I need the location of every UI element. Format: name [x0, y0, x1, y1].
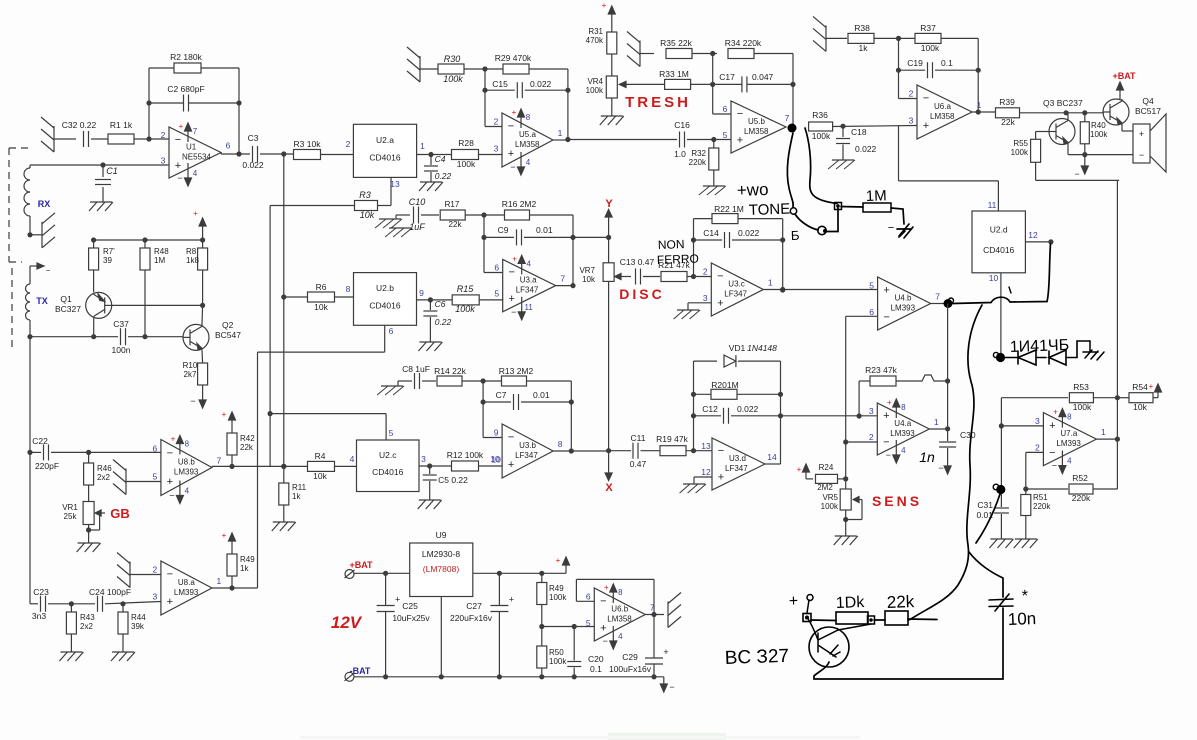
svg-text:8: 8 [346, 284, 351, 294]
svg-text:SENS: SENS [872, 493, 922, 509]
ground under R11 [272, 522, 296, 531]
bus vertical x257 [257, 352, 259, 588]
wire U9 gnd pin [440, 597, 442, 677]
op-amp U8.b LM393 [153, 435, 222, 504]
svg-text:TX: TX [36, 296, 48, 306]
svg-text:CD4016: CD4016 [369, 300, 400, 310]
svg-text:R39: R39 [999, 97, 1015, 107]
svg-text:220pF: 220pF [35, 461, 59, 471]
svg-text:R40: R40 [1091, 121, 1106, 130]
svg-text:R30: R30 [444, 54, 461, 64]
svg-text:X: X [605, 482, 613, 494]
svg-text:3: 3 [1035, 416, 1040, 426]
svg-text:7: 7 [217, 456, 222, 466]
wire U3.d pin12 gnd [694, 477, 712, 484]
svg-text:8: 8 [526, 113, 531, 122]
wire U9 out rail [473, 571, 566, 576]
svg-text:3: 3 [161, 155, 166, 165]
svg-text:100k: 100k [455, 304, 475, 314]
label 1n handwritten [919, 449, 935, 465]
resistor R8 1k8 [186, 240, 208, 305]
svg-text:11: 11 [988, 200, 997, 210]
wire U6.a pin3 to U2.d [899, 126, 999, 212]
Y axis arrow [605, 210, 612, 231]
svg-text:1: 1 [1101, 427, 1106, 437]
resistor R24 2M2 [806, 463, 846, 492]
svg-text:100k: 100k [1073, 402, 1092, 412]
svg-text:U6.a: U6.a [934, 102, 951, 111]
svg-text:+: + [1149, 382, 1154, 391]
wire C37 row [27, 334, 183, 339]
wire C13-R21 [643, 276, 660, 278]
svg-text:U3.b: U3.b [519, 441, 536, 450]
capacitor C6 0.22 [423, 299, 451, 342]
svg-text:1k: 1k [859, 43, 869, 53]
svg-text:+: + [602, 1, 607, 10]
resistor R15 100k [452, 284, 479, 314]
svg-text:10k: 10k [582, 275, 596, 284]
potentiometer VR7 10k [579, 263, 614, 284]
capacitor C30 1n [939, 429, 976, 447]
wire C31 vertical [1000, 426, 1002, 507]
svg-text:+: + [508, 459, 514, 471]
wire C23-C24 [48, 601, 95, 606]
ground U8.b pin5 [113, 460, 161, 495]
svg-text:7: 7 [785, 113, 790, 123]
VR7 wiper [615, 274, 631, 280]
svg-text:LM393: LM393 [174, 468, 199, 477]
svg-text:LF347: LF347 [725, 464, 748, 473]
svg-text:10k: 10k [360, 210, 375, 220]
svg-text:7: 7 [560, 274, 565, 284]
svg-text:C9: C9 [498, 225, 509, 235]
svg-text:12: 12 [1028, 230, 1038, 240]
svg-text:3: 3 [869, 406, 874, 416]
arrow +BAT [1117, 82, 1124, 99]
svg-text:12V: 12V [331, 613, 363, 632]
capacitor C7 0.01 [483, 390, 571, 410]
wire Q2 emitter to R10 [201, 350, 204, 363]
svg-text:220k: 220k [689, 158, 707, 167]
svg-text:R19 47k: R19 47k [656, 434, 688, 444]
wire R37 right [941, 37, 978, 39]
svg-text:R3 10k: R3 10k [294, 139, 322, 149]
wire R1 to U1 pin2 [134, 136, 169, 141]
svg-text:CD4016: CD4016 [369, 152, 400, 162]
svg-text:4: 4 [1067, 457, 1072, 466]
svg-text:+BAT: +BAT [1112, 71, 1136, 81]
svg-text:R43: R43 [80, 613, 95, 622]
hand wavy B blob to 10n [969, 494, 1003, 597]
svg-text:C24 100pF: C24 100pF [89, 587, 131, 597]
resistor R14 22k [422, 366, 467, 386]
wire C9 row to Y axis [573, 236, 609, 238]
label +BAT [1112, 71, 1136, 81]
ground R30 [407, 47, 438, 82]
op-amp U3.b LF347 [491, 424, 562, 478]
svg-text:VD1: VD1 [729, 343, 746, 353]
wire U8.b out row [212, 464, 357, 469]
transistor Q4 BC517 [1103, 96, 1161, 125]
svg-text:+: + [1139, 129, 1144, 139]
capacitor C10 1uF [375, 197, 425, 232]
resistor R33 1M [659, 69, 690, 89]
wire R53 right [1093, 395, 1120, 400]
hand contact square d [803, 614, 811, 622]
svg-text:C37: C37 [113, 319, 129, 329]
svg-text:10k: 10k [1133, 402, 1147, 412]
vertical C7 left [481, 381, 486, 438]
node U4.b out blob [931, 298, 954, 308]
shield dashed lines [9, 148, 29, 352]
ground U8.a pin2 [117, 553, 161, 588]
vertical C9 left [481, 215, 486, 273]
svg-text:0.022: 0.022 [737, 404, 759, 414]
svg-text:8: 8 [558, 439, 563, 449]
svg-text:2: 2 [153, 565, 158, 575]
wire R14 to node [462, 378, 502, 383]
svg-text:R36: R36 [812, 110, 828, 120]
op-amp U7.a LM393 [1035, 408, 1106, 474]
svg-text:LM358: LM358 [607, 615, 632, 624]
svg-text:8: 8 [901, 403, 906, 412]
Y axis label [605, 198, 613, 210]
wire R30 node [464, 66, 503, 71]
hand wire U5.b out to switch [787, 133, 793, 207]
capacitor C18 0.022 [836, 126, 877, 160]
svg-text:FERRO: FERRO [657, 252, 699, 267]
svg-text:C27: C27 [466, 601, 482, 611]
wire U8.a out row [212, 585, 258, 590]
svg-text:BC З27: BC З27 [724, 646, 789, 669]
wire Q1 collector [91, 318, 96, 339]
svg-text:0.022: 0.022 [530, 79, 552, 89]
svg-text:100k: 100k [821, 502, 839, 511]
svg-text:U5.b: U5.b [748, 117, 765, 126]
capacitor C15 0.022 [485, 79, 568, 98]
TX polarity arrow [30, 263, 51, 275]
X axis label [605, 482, 613, 494]
hand text 5 [791, 228, 801, 243]
capacitor C22 220pF [27, 436, 59, 471]
svg-text:−: − [669, 682, 674, 692]
svg-text:9: 9 [419, 288, 424, 298]
svg-text:BC517: BC517 [1135, 106, 1161, 116]
resistor R16 2M2 [502, 199, 537, 220]
svg-text:LM2930-8: LM2930-8 [422, 549, 461, 559]
svg-text:R50: R50 [549, 648, 564, 657]
op-amp U6.b LM358 [586, 583, 655, 649]
resistor R43 2x2 [66, 604, 95, 652]
svg-text:C18: C18 [851, 127, 867, 137]
ground U6.b out [668, 593, 681, 628]
wire R49-R50 node [539, 624, 594, 629]
svg-text:5: 5 [153, 472, 158, 482]
svg-text:+: + [193, 209, 198, 218]
power arrow above R42 [222, 410, 236, 425]
svg-text:−: − [508, 121, 514, 133]
hand cap 10n [989, 588, 1036, 629]
U5.b feedback right vertical [790, 54, 795, 128]
svg-text:C22: C22 [32, 436, 48, 446]
hand text 10k [836, 594, 866, 612]
power arrow R31 [602, 1, 616, 18]
svg-text:VR5: VR5 [822, 493, 838, 502]
wire U4.a out [929, 428, 947, 430]
svg-text:R1 1k: R1 1k [110, 120, 133, 130]
svg-text:R24: R24 [819, 463, 834, 472]
wire U1 pin3 row [30, 164, 169, 166]
svg-text:−: − [938, 463, 943, 473]
svg-text:RX: RX [38, 199, 51, 209]
wire R53 to pin3 [999, 398, 1004, 429]
vertical C9 right [570, 215, 575, 288]
svg-text:R52: R52 [1072, 473, 1088, 483]
svg-text:+: + [883, 284, 889, 296]
svg-text:C12: C12 [702, 404, 718, 414]
svg-text:R12 100k: R12 100k [447, 450, 484, 460]
svg-text:8: 8 [1067, 413, 1072, 422]
svg-text:10n: 10n [1007, 609, 1036, 629]
svg-text:1k8: 1k8 [186, 256, 199, 265]
svg-text:0.47: 0.47 [630, 459, 647, 469]
capacitor C2 680pF [149, 84, 239, 112]
svg-text:1k: 1k [240, 564, 249, 573]
svg-text:+: + [556, 556, 561, 565]
svg-text:6: 6 [153, 444, 158, 454]
label 12V [331, 613, 363, 632]
svg-text:100k: 100k [1090, 130, 1108, 139]
svg-text:6: 6 [389, 326, 394, 336]
svg-text:−: − [190, 396, 195, 406]
svg-text:1.0: 1.0 [674, 149, 686, 159]
wire R28 to U5.a pin3 [479, 154, 503, 155]
svg-text:C2 680pF: C2 680pF [167, 84, 204, 94]
wire +BAT rail [354, 571, 410, 576]
svg-text:2: 2 [494, 117, 499, 127]
svg-text:U2.d: U2.d [990, 225, 1008, 235]
svg-text:R44: R44 [131, 613, 146, 622]
svg-text:5: 5 [494, 289, 499, 299]
svg-text:Q2: Q2 [222, 320, 234, 330]
resistor R31 470k [586, 18, 617, 76]
resistor R42 22k [227, 425, 255, 466]
bus vertical x284 [281, 154, 286, 483]
resistor R1 1k [108, 120, 134, 144]
svg-text:2x2: 2x2 [97, 473, 110, 482]
svg-text:3: 3 [421, 454, 426, 464]
svg-text:−: − [508, 432, 514, 444]
svg-text:7: 7 [193, 127, 198, 136]
svg-text:100k: 100k [1011, 148, 1029, 157]
svg-text:C8 1uF: C8 1uF [402, 364, 430, 374]
wire TX bottom to C22 [29, 337, 31, 453]
ground under VR1 [77, 543, 101, 552]
resistor R55 100k [1011, 139, 1041, 162]
wire U3.a out [556, 285, 573, 287]
svg-text:6: 6 [494, 263, 499, 273]
svg-text:39k: 39k [131, 622, 145, 631]
wire U7.a pin3 row [1001, 425, 1043, 427]
svg-text:2: 2 [161, 130, 166, 140]
wire U2.d pin10 [989, 273, 1001, 356]
resistor R52 220k [1026, 473, 1118, 503]
wire R19 to U3.d [686, 448, 712, 453]
resistor R40 100k [1080, 113, 1108, 155]
hand blob C31 top [993, 484, 1005, 494]
svg-text:+: + [604, 583, 609, 592]
hand bottom wire [814, 608, 1003, 679]
node C1 [100, 162, 105, 167]
svg-text:R33 1M: R33 1M [659, 69, 689, 79]
hand contact square c [835, 203, 842, 210]
ground under R44 [111, 652, 135, 661]
svg-text:R17: R17 [445, 200, 460, 209]
svg-text:+: + [883, 410, 889, 422]
svg-text:+: + [171, 435, 176, 444]
svg-text:5: 5 [723, 130, 728, 140]
svg-text:1: 1 [768, 278, 773, 288]
resistor R22 1M [694, 204, 783, 224]
wire R35-R34 [692, 51, 717, 56]
svg-text:R7': R7' [103, 247, 115, 256]
svg-text:R13 2M2: R13 2M2 [499, 366, 534, 376]
svg-text:+: + [797, 465, 802, 474]
hand resistor 1M [841, 187, 891, 212]
svg-text:4: 4 [185, 487, 190, 496]
transistor Q1 BC327 [55, 292, 112, 318]
IC U2.b CD4016 [354, 273, 417, 326]
svg-text:R51: R51 [1033, 493, 1048, 502]
wire VR4 to ground [611, 98, 613, 116]
svg-text:0.022: 0.022 [738, 228, 760, 238]
svg-text:−: − [737, 108, 743, 120]
svg-text:10k: 10k [313, 471, 327, 481]
wire Q2 collector [201, 305, 204, 324]
svg-text:R6: R6 [316, 282, 327, 292]
svg-text:R49: R49 [549, 584, 564, 593]
wire C16 to U5.b pin5 [687, 137, 731, 142]
hand wire R36 left drop [805, 128, 837, 204]
diode VD1 1N4148 [694, 343, 781, 367]
svg-text:−: − [600, 595, 606, 607]
U3.d feedback right vertical [778, 361, 783, 464]
svg-text:C13 0.47: C13 0.47 [620, 257, 655, 267]
svg-text:−: − [167, 448, 173, 460]
label TRESH [625, 94, 691, 111]
resistor R44 39k [118, 604, 146, 652]
svg-text:−: − [508, 267, 514, 279]
ground under VR4 [600, 116, 624, 125]
vertical R29 left node [482, 69, 487, 127]
resistor R30 100k [438, 54, 464, 84]
svg-text:+: + [512, 254, 517, 263]
svg-text:5: 5 [389, 428, 394, 438]
svg-text:1: 1 [558, 128, 563, 138]
svg-text:R28: R28 [458, 138, 474, 148]
svg-text:1: 1 [217, 576, 222, 586]
svg-text:1: 1 [977, 100, 982, 110]
svg-text:Y: Y [605, 198, 613, 210]
svg-text:+: + [395, 595, 400, 605]
svg-text:+: + [508, 148, 514, 160]
svg-text:3: 3 [153, 592, 158, 602]
svg-text:8: 8 [618, 588, 623, 597]
svg-text:C30: C30 [960, 430, 976, 440]
svg-text:NE5534: NE5534 [182, 153, 211, 162]
resistor R19 47k [656, 434, 688, 456]
svg-text:9: 9 [494, 428, 499, 438]
svg-text:0.022: 0.022 [855, 144, 877, 154]
svg-text:+: + [717, 297, 723, 309]
svg-text:R49: R49 [240, 555, 255, 564]
wire R34 right [754, 53, 793, 55]
svg-text:C19: C19 [907, 58, 923, 68]
svg-text:+: + [508, 293, 514, 305]
svg-text:100k: 100k [549, 657, 567, 666]
svg-text:U5.a: U5.a [519, 130, 536, 139]
resistor R6 10k [284, 282, 354, 312]
wire Q3 base from R55 [1036, 132, 1049, 140]
svg-text:−: − [1052, 461, 1057, 471]
resistor R37 100k [915, 23, 941, 53]
svg-text:−: − [510, 162, 515, 172]
hand wire blade to corner [826, 208, 838, 232]
capacitor C37 100n [112, 319, 131, 355]
wire C11-R19 [641, 450, 661, 452]
svg-text:22k: 22k [1001, 117, 1015, 127]
svg-text:U8.a: U8.a [178, 578, 195, 587]
wire U3.b out row [553, 450, 631, 452]
svg-text:R29 470k: R29 470k [495, 53, 532, 63]
svg-text:TONE: TONE [749, 201, 791, 219]
wire U3.c out to U4.b [763, 287, 877, 292]
resistor R20 1M [694, 380, 781, 399]
capacitor C1 [95, 165, 118, 202]
svg-text:1uF: 1uF [409, 222, 425, 232]
hand resistor 10k [811, 612, 868, 624]
svg-text:−: − [169, 491, 174, 501]
svg-text:R35 22k: R35 22k [660, 38, 692, 48]
svg-text:U9: U9 [436, 530, 447, 540]
wire R3 to U2.a [320, 139, 353, 155]
svg-text:−: − [883, 311, 889, 323]
wire C22 to U8.b pin6 [51, 450, 161, 455]
svg-text:3: 3 [494, 144, 499, 154]
svg-text:+wo: +wo [736, 180, 768, 200]
svg-text:*: * [1022, 588, 1029, 605]
resistor R11 1k [279, 483, 307, 522]
ground under VR5 [834, 536, 858, 545]
svg-text:10uFx25v: 10uFx25v [392, 613, 430, 623]
capacitor C17 0.047 [713, 72, 793, 92]
svg-text:+: + [789, 593, 799, 610]
svg-text:R37: R37 [920, 23, 936, 33]
wire R38-R37 [874, 36, 915, 41]
resistor R3 10k italic [355, 190, 378, 220]
wire R23 right with hump [896, 375, 950, 384]
svg-text:1N4148: 1N4148 [747, 343, 777, 353]
svg-text:2x2: 2x2 [80, 622, 93, 631]
svg-text:C1: C1 [106, 166, 118, 176]
wire R3b to bus [270, 205, 354, 207]
op-amp U3.d LF347 [701, 438, 777, 490]
wire R36 to C18 node [833, 124, 917, 129]
svg-text:−: − [886, 450, 891, 460]
resistor R13 2M2 [499, 366, 534, 386]
svg-text:CD4016: CD4016 [372, 467, 403, 477]
svg-text:+: + [167, 596, 173, 608]
